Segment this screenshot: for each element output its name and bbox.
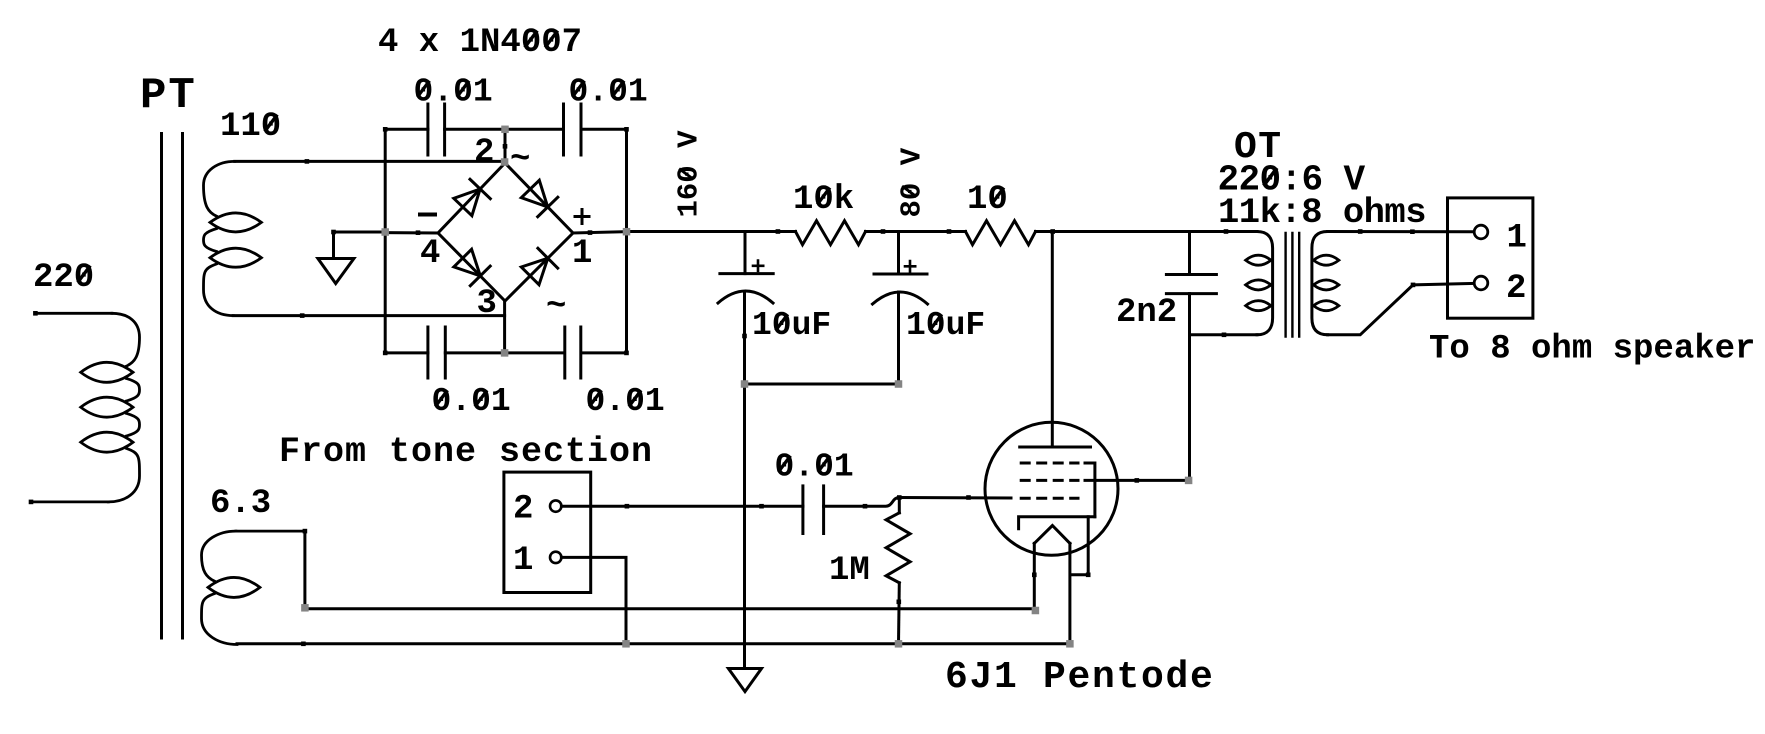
svg-text:3: 3	[477, 285, 497, 323]
wire 10k to node 80V	[866, 230, 899, 233]
connector J1 From tone section box	[504, 472, 591, 592]
tube grid g3 dashes	[1020, 462, 1080, 465]
resistor 10k	[796, 221, 866, 245]
wire node 80V to 10 ohm	[899, 230, 966, 233]
wire screen g2 lead	[1085, 479, 1189, 482]
tube 6J1 envelope	[985, 422, 1118, 555]
diode D4 1N4007 (3 to 1)	[521, 258, 548, 285]
svg-text:4 x 1N4007: 4 x 1N4007	[378, 24, 582, 62]
ground symbol at bridge minus node	[334, 231, 386, 234]
svg-text:110: 110	[220, 108, 281, 146]
label + plus	[575, 210, 589, 224]
capacitor C2 10uF curved plate	[873, 292, 928, 304]
svg-text:~: ~	[510, 141, 530, 179]
wire pin1 to ground	[561, 557, 626, 643]
wire 2n2 bottom to OT primary bottom and screen	[1188, 294, 1191, 481]
svg-text:0.01: 0.01	[569, 74, 648, 111]
wire control grid g1 lead	[899, 496, 1011, 500]
capacitor C1 polarity plus	[753, 261, 763, 272]
wire cathode lead	[1070, 517, 1088, 575]
wire heater supply 6.3 run	[305, 607, 1034, 610]
wire joining C1 and C2 negative leads	[745, 383, 899, 386]
svg-text:1: 1	[513, 542, 533, 580]
capacitor 0.01 top-right plates	[562, 104, 565, 155]
svg-text:0.01: 0.01	[775, 449, 854, 486]
svg-text:From tone section: From tone section	[279, 432, 653, 472]
label - minus	[420, 213, 435, 217]
wire left vertex to edge	[385, 231, 438, 234]
transformer OT primary winding	[1257, 232, 1273, 335]
svg-text:4: 4	[420, 235, 440, 273]
svg-text:PT: PT	[140, 71, 197, 121]
svg-text:6.3: 6.3	[210, 485, 271, 523]
capacitor C2 polarity plus	[905, 261, 915, 272]
wire 10 ohm to plate node	[1036, 230, 1053, 233]
svg-text:~: ~	[546, 288, 566, 326]
capacitor 2n2 plates	[1166, 273, 1216, 276]
capacitor C1 10uF top plate	[720, 272, 773, 275]
speaker terminal 1 circle	[1474, 225, 1488, 239]
bridge outer rect left edge	[384, 129, 387, 353]
connector pin 1 circle	[550, 552, 561, 563]
wire OT secondary bottom with diagonal to speaker pin 2	[1328, 283, 1474, 334]
tube heater tent	[1034, 526, 1070, 544]
svg-text:1M: 1M	[829, 552, 870, 590]
svg-text:2: 2	[513, 491, 533, 529]
transformer PT secondary winding 6.3	[202, 531, 236, 581]
svg-text:1: 1	[1507, 219, 1527, 257]
capacitor C5 0.01 coupling plates	[801, 486, 804, 534]
wire plate node to OT rail	[1053, 230, 1257, 233]
wire OT primary bottom	[1190, 333, 1258, 336]
diode D1 1N4007 (4 to 2)	[454, 189, 480, 216]
diode D3 1N4007 (4 to 3)	[454, 249, 481, 276]
svg-text:10k: 10k	[793, 181, 854, 219]
tube grid g1 dashes	[1020, 497, 1080, 500]
bridge top edge segments with capacitor gaps	[385, 128, 428, 131]
wire 220 top lead	[35, 312, 112, 315]
transformer PT primary winding 220	[112, 313, 140, 366]
wire node 3 stub	[503, 301, 506, 353]
capacitor C1 10uF lead	[744, 232, 747, 274]
wire pin2 to coupling cap	[561, 505, 803, 508]
wire 6.3 top lead corner	[303, 531, 306, 609]
capacitor 0.01 bottom-right plates	[563, 327, 566, 378]
svg-text:80 V: 80 V	[896, 147, 929, 217]
wire plate lead	[1051, 232, 1054, 448]
connector pin 2 circle	[550, 500, 561, 511]
wire C2 negative lead	[897, 292, 900, 384]
svg-text:1: 1	[572, 235, 592, 273]
svg-text:220: 220	[33, 259, 94, 297]
wire OT secondary top to speaker pin 1	[1328, 230, 1474, 233]
wire 6.3 top lead	[236, 530, 305, 533]
capacitor C2 10uF top plate	[874, 273, 927, 276]
capacitor C2 10uF lead	[897, 232, 900, 275]
label 80 V	[896, 147, 929, 217]
svg-text:To 8 ohm speaker: To 8 ohm speaker	[1429, 331, 1755, 369]
wire heater left leg	[1033, 543, 1036, 610]
capacitor 0.01 top-left plates	[426, 104, 429, 155]
svg-text:2: 2	[1506, 270, 1526, 308]
wire coupling cap to grid node	[824, 498, 900, 507]
diode D2 1N4007 (2 to 1)	[521, 180, 547, 207]
speaker terminal 2 circle	[1474, 276, 1488, 290]
wire 110 bottom lead to bridge node 3	[233, 314, 504, 317]
transformer PT secondary winding 110	[204, 161, 235, 216]
svg-text:0.01: 0.01	[586, 383, 665, 420]
svg-text:0.01: 0.01	[432, 383, 511, 420]
resistor 10	[966, 221, 1036, 245]
wire 110 top lead to bridge node 2	[235, 160, 505, 163]
svg-text:11k:8 ohms: 11k:8 ohms	[1218, 192, 1426, 233]
tube grid g2 dashes	[1020, 479, 1080, 482]
wire right vertex to edge	[573, 232, 627, 233]
svg-text:10uF: 10uF	[752, 307, 831, 344]
bridge bottom edge segments	[385, 351, 428, 354]
svg-text:10: 10	[967, 181, 1008, 219]
bridge diamond wires	[438, 163, 573, 301]
resistor 1M zigzag	[886, 513, 910, 583]
label 160 V	[673, 130, 706, 218]
svg-text:6J1 Pentode: 6J1 Pentode	[945, 656, 1215, 699]
tube plate bar	[1020, 446, 1091, 449]
svg-text:160 V: 160 V	[673, 130, 706, 218]
svg-text:2: 2	[474, 134, 494, 172]
capacitor 2n2 top lead	[1188, 232, 1191, 275]
svg-text:10uF: 10uF	[906, 307, 985, 344]
transformer OT secondary winding	[1312, 232, 1328, 335]
transformer OT core	[1284, 233, 1286, 337]
wire 220 bottom lead	[31, 500, 108, 503]
wire node 2 stub	[504, 129, 507, 162]
resistor 1M grid leak	[897, 495, 902, 500]
wire ground return run	[237, 642, 1070, 645]
wire C1 negative lead down to ground	[743, 292, 746, 669]
ground symbol bottom	[728, 669, 761, 692]
connector speaker box	[1448, 198, 1533, 318]
tube g3 to cathode bracket	[1085, 463, 1095, 517]
capacitor C1 10uF curved plate	[718, 291, 773, 303]
capacitor 0.01 bottom-left plates	[426, 327, 429, 378]
bridge outer rect right edge	[625, 129, 628, 353]
wire heater right leg / cathode to ground	[1068, 543, 1071, 643]
node junctions	[501, 126, 509, 134]
transformer PT core	[160, 134, 163, 639]
tube cathode bar	[1019, 517, 1095, 529]
wire B+ rail 160V	[627, 230, 796, 233]
svg-text:0.01: 0.01	[414, 74, 493, 111]
svg-text:2n2: 2n2	[1116, 294, 1177, 332]
